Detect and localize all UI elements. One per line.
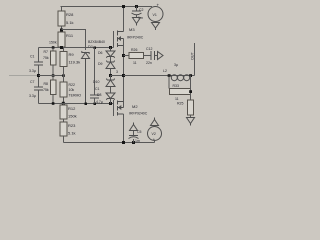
wire M2 drain to bottom rail	[123, 114, 125, 143]
node M3 drain rail	[122, 5, 125, 8]
node output rail mid	[122, 74, 125, 77]
svg-text:R7: R7	[44, 50, 49, 54]
diode D8	[106, 93, 115, 100]
svg-text:150k: 150k	[49, 41, 57, 45]
wire mid bus left	[39, 75, 64, 77]
svg-text:75k: 75k	[43, 88, 49, 92]
svg-text:11: 11	[175, 97, 179, 101]
svg-text:R26: R26	[131, 48, 137, 52]
svg-text:L2: L2	[163, 69, 167, 73]
resistor R8	[52, 76, 54, 81]
inductor L2	[171, 75, 177, 81]
svg-text:C2: C2	[139, 8, 144, 12]
resistor R33 damper	[168, 76, 170, 89]
svg-text:R12: R12	[68, 106, 76, 111]
svg-text:OUT: OUT	[190, 51, 194, 60]
svg-text:C7: C7	[30, 80, 35, 84]
wire M3 drain to rail	[123, 7, 125, 32]
svg-text:3: 3	[116, 70, 118, 74]
wire R11 bottom lead	[61, 46, 63, 49]
wire input line	[9, 75, 39, 77]
svg-text:BZX84B40: BZX84B40	[88, 40, 105, 44]
node M2 drain rail	[122, 141, 125, 144]
port triangle out2	[158, 52, 164, 60]
node R33/R25 junction	[189, 90, 192, 93]
svg-text:C1: C1	[30, 55, 35, 59]
svg-text:TERMO: TERMO	[69, 94, 82, 98]
resistor R25 load	[188, 100, 194, 115]
ground above C5	[130, 123, 138, 131]
svg-text:M3: M3	[129, 27, 135, 32]
svg-text:R22: R22	[69, 83, 75, 87]
svg-text:75k: 75k	[43, 56, 49, 60]
resistor R11	[58, 32, 65, 47]
svg-text:4.7μ: 4.7μ	[96, 100, 103, 104]
node C5 rail	[132, 141, 135, 144]
svg-text:D9: D9	[98, 62, 103, 66]
node M3 source / R26	[122, 54, 125, 57]
svg-text:3.3μ: 3.3μ	[29, 94, 36, 98]
diode D10	[110, 76, 112, 81]
wire output bus	[124, 75, 195, 77]
svg-text:150k: 150k	[68, 114, 77, 119]
wire node A to D1 branch	[62, 30, 86, 51]
svg-text:R28: R28	[66, 12, 74, 17]
node C1 bias cap top	[94, 47, 97, 50]
node C1 bias bottom	[94, 103, 97, 106]
svg-text:R11: R11	[66, 33, 74, 38]
svg-text:3μ: 3μ	[174, 63, 178, 67]
wire top rail	[61, 6, 153, 8]
node R22/R12 junction	[62, 102, 65, 105]
node diode chain top	[109, 46, 112, 49]
node L2 left	[168, 74, 171, 77]
capacitor C7 input	[38, 76, 40, 88]
svg-text:V2: V2	[152, 132, 156, 136]
resistor R9	[63, 48, 65, 52]
svg-text:R23: R23	[68, 123, 76, 128]
node R9/R22 junction	[62, 74, 65, 77]
ground under C2	[133, 18, 141, 26]
wire gate bus bottom	[39, 103, 114, 105]
svg-text:D6: D6	[98, 51, 103, 55]
node R28/R11 junction	[60, 29, 63, 32]
svg-text:IRFP9240C: IRFP9240C	[129, 112, 148, 116]
node R7/R8 junction	[52, 74, 55, 77]
resistor R26	[124, 55, 130, 57]
resistor R28	[58, 11, 65, 26]
mosfet M2 IRFP9240C	[113, 100, 115, 116]
svg-text:R25: R25	[177, 102, 183, 106]
svg-text:119.3k: 119.3k	[69, 60, 81, 65]
wire M3 source to output rail	[123, 39, 125, 108]
svg-text:D8: D8	[97, 93, 102, 97]
resistor R7	[52, 48, 54, 52]
svg-text:22n: 22n	[146, 61, 152, 65]
source V2	[148, 127, 162, 141]
capacitor C5	[133, 139, 135, 143]
svg-text:5.1k: 5.1k	[66, 20, 74, 25]
node D1 bottom	[85, 103, 88, 106]
node R9 top	[60, 46, 63, 49]
svg-text:11: 11	[133, 61, 137, 65]
wire V1 bottom	[155, 22, 157, 23]
svg-text:C12: C12	[146, 47, 152, 51]
capacitor C2 rail	[135, 5, 138, 8]
svg-text:3.3μ: 3.3μ	[29, 69, 36, 73]
resistor R12	[63, 104, 65, 106]
svg-text:R33: R33	[173, 84, 179, 88]
ground above V2	[151, 118, 159, 126]
resistor R23	[60, 122, 67, 136]
resistor R22 thermistor	[63, 76, 65, 83]
wire bottom rail	[64, 142, 155, 144]
source V1	[148, 7, 163, 22]
wire OUT	[194, 43, 196, 76]
svg-text:5.1k: 5.1k	[68, 131, 76, 136]
capacitor C12 zobel	[151, 51, 155, 60]
node input junction	[37, 74, 40, 77]
ground under R25	[187, 118, 195, 126]
wire gate bus top	[39, 47, 114, 49]
capacitor C1 bias branch	[94, 48, 96, 96]
svg-text:1m: 1m	[135, 139, 140, 143]
svg-text:+: +	[157, 3, 160, 8]
diode chain wire	[110, 48, 112, 52]
node L2 right	[189, 74, 192, 77]
svg-text:D1: D1	[88, 44, 94, 49]
wire R28-R11	[61, 26, 63, 32]
svg-text:10k: 10k	[69, 88, 75, 92]
svg-text:IRFP240C: IRFP240C	[127, 36, 144, 40]
svg-text:D10: D10	[93, 80, 99, 84]
ground under V1	[152, 23, 160, 31]
node R7 top	[52, 46, 55, 49]
wire R28 top lead	[61, 7, 63, 12]
svg-text:R8: R8	[44, 82, 49, 86]
node diode chain bottom	[109, 102, 112, 105]
zener D1	[82, 51, 90, 104]
capacitor C1 input	[38, 48, 40, 63]
mosfet M3 IRFP240C	[113, 31, 115, 48]
wire V2 bottom to rail	[154, 141, 156, 143]
svg-text:V1: V1	[153, 13, 157, 17]
svg-text:M2: M2	[132, 104, 138, 109]
wire mid to output rail	[111, 75, 124, 77]
svg-text:C1: C1	[95, 87, 100, 91]
node diode mid junction	[109, 74, 112, 77]
node R8 bottom	[52, 102, 55, 105]
svg-text:R9: R9	[69, 52, 75, 57]
